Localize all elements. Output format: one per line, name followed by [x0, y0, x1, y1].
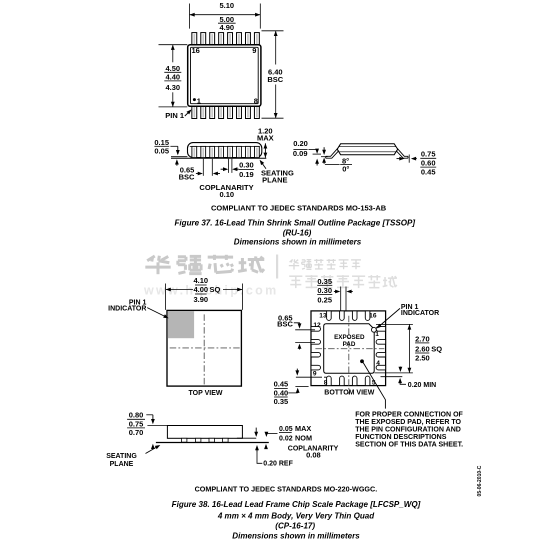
svg-text:SEATING: SEATING [106, 453, 137, 460]
svg-text:0.40: 0.40 [274, 388, 289, 397]
dimension 0.35/0.30/0.25 pad width [317, 277, 353, 311]
TSSOP top view - top leads (pins 16-9) [192, 33, 259, 45]
dimension 0.20 MIN [381, 367, 437, 390]
dimension 0.75/0.60/0.45 foot length [397, 150, 437, 177]
dimension 1.20 MAX package height [257, 126, 274, 158]
bottom view centerlines [315, 316, 384, 395]
svg-text:TOP VIEW: TOP VIEW [189, 390, 223, 397]
PIN 1 INDICATOR label with arrow (top view) [108, 300, 169, 319]
dimension 0.20/0.09 lead thickness [293, 139, 328, 165]
bottom view right pads (pins 1-4) [376, 327, 386, 370]
svg-text:COMPLIANT TO JEDEC STANDARDS M: COMPLIANT TO JEDEC STANDARDS MO-220-WGGC… [195, 484, 378, 493]
svg-text:FOR PROPER CONNECTION OF: FOR PROPER CONNECTION OF [355, 412, 463, 419]
TSSOP lead profile body (detail view) [337, 144, 398, 155]
dimension 0.65 BSC pad pitch (left) [277, 313, 315, 349]
SEATING PLANE label with arrow (fig37) [260, 160, 294, 185]
svg-text:2.60: 2.60 [415, 345, 430, 354]
svg-text:4.00: 4.00 [193, 285, 208, 294]
pin 1 label with index dot [193, 96, 201, 105]
svg-text:BSC: BSC [277, 319, 293, 328]
svg-text:4.30: 4.30 [165, 83, 180, 92]
svg-text:13: 13 [319, 313, 327, 320]
svg-text:3.90: 3.90 [193, 295, 208, 304]
svg-text:0.75: 0.75 [421, 150, 436, 159]
dimension 0.45/0.40/0.35 (left) [274, 369, 329, 406]
svg-text:0.30: 0.30 [239, 161, 254, 170]
lead foot line [171, 156, 187, 158]
TSSOP side view - body [188, 143, 262, 158]
svg-text:PIN 1: PIN 1 [165, 111, 184, 120]
pin 1 indicator area (gray square) [168, 311, 195, 338]
dimension 0.80/0.75/0.70 package height [127, 411, 167, 449]
exposed pad outline (chamfered pin-1 corner) [324, 324, 375, 374]
pin 1 indicator circle [372, 327, 377, 332]
PIN 1 INDICATOR label with arrow (bottom view) [377, 304, 440, 329]
svg-text:4.10: 4.10 [193, 276, 208, 285]
dimension 5.10/5.00/4.90 body width [190, 1, 261, 32]
svg-text:0.20 MIN: 0.20 MIN [408, 382, 436, 389]
svg-text:4: 4 [376, 360, 380, 367]
dimension 0.15/0.05 foot standoff [154, 138, 179, 166]
svg-text:PAD: PAD [343, 341, 356, 348]
svg-text:0.20 REF: 0.20 REF [263, 460, 293, 467]
svg-text:8: 8 [324, 380, 328, 387]
dimension 4.10/4.00 SQ/3.90 package size [166, 276, 243, 310]
svg-text:INDICATOR: INDICATOR [401, 310, 439, 317]
svg-text:9: 9 [252, 46, 256, 55]
watermark 元器件在线商城 [289, 275, 397, 288]
svg-text:2.70: 2.70 [415, 334, 430, 343]
COPLANARITY 0.10 note [199, 183, 253, 199]
svg-text:0.35: 0.35 [317, 277, 332, 286]
dimension 6.40 BSC overall width [262, 31, 284, 118]
svg-text:Figure 38. 16-Lead Lead Frame: Figure 38. 16-Lead Lead Frame Chip Scale… [172, 500, 421, 509]
dimension 0.05 MAX / 0.02 NOM standoff [237, 424, 312, 449]
svg-text:Dimensions shown in millimeter: Dimensions shown in millimeters [234, 237, 362, 246]
svg-text:5.10: 5.10 [219, 1, 234, 10]
dimension 0.20 REF [255, 445, 293, 467]
LFCSP bottom view - package outline [311, 311, 386, 386]
svg-text:8: 8 [254, 96, 258, 105]
svg-text:COMPLIANT TO JEDEC STANDARDS M: COMPLIANT TO JEDEC STANDARDS MO-153-AB [211, 204, 387, 213]
watermark 华强集团旗下 [289, 259, 361, 270]
svg-text:0.25: 0.25 [317, 295, 332, 304]
svg-text:0.05: 0.05 [154, 147, 169, 156]
svg-text:1: 1 [197, 96, 201, 105]
SEATING PLANE label with arrow (fig38) [106, 445, 160, 468]
svg-text:16: 16 [369, 313, 377, 320]
dimension 8deg/0deg lead angle [325, 156, 352, 173]
svg-text:0.35: 0.35 [274, 397, 289, 406]
svg-text:0°: 0° [342, 164, 349, 173]
svg-text:4.40: 4.40 [165, 72, 180, 81]
svg-text:MAX: MAX [257, 133, 274, 142]
svg-text:INDICATOR: INDICATOR [108, 306, 146, 313]
svg-text:9: 9 [313, 370, 317, 377]
bottom view pin labels [313, 313, 380, 387]
svg-text:0.05: 0.05 [279, 426, 293, 433]
svg-text:BSC: BSC [179, 172, 195, 181]
left gull-wing lead (detail view) [326, 148, 339, 158]
TSSOP side view - leads [192, 146, 259, 157]
dimension 0.30/0.19 lead width [221, 159, 254, 179]
svg-text:BSC: BSC [267, 75, 283, 84]
bottom view top pads (pins 13-16) [327, 311, 370, 321]
svg-text:0.70: 0.70 [129, 428, 144, 437]
svg-text:MAX: MAX [295, 424, 311, 433]
dimension 0.65 BSC lead pitch [179, 159, 220, 182]
svg-text:BOTTOM VIEW: BOTTOM VIEW [324, 390, 374, 397]
svg-text:0.19: 0.19 [239, 170, 254, 179]
dimension 2.70/2.60 SQ/2.50 exposed pad size [375, 324, 443, 373]
svg-text:(CP-16-17): (CP-16-17) [275, 521, 315, 530]
svg-text:THE EXPOSED PAD, REFER TO: THE EXPOSED PAD, REFER TO [355, 419, 461, 426]
svg-text:SQ: SQ [210, 285, 221, 294]
svg-text:SECTION OF THIS DATA SHEET.: SECTION OF THIS DATA SHEET. [355, 442, 463, 449]
svg-text:0.20: 0.20 [293, 139, 308, 148]
svg-text:0.15: 0.15 [154, 138, 169, 147]
svg-text:PLANE: PLANE [110, 461, 134, 468]
svg-text:0.10: 0.10 [219, 190, 234, 199]
svg-text:Figure 37. 16-Lead Thin Shrink: Figure 37. 16-Lead Thin Shrink Small Out… [175, 219, 416, 228]
svg-text:THE PIN CONFIGURATION AND: THE PIN CONFIGURATION AND [355, 427, 461, 434]
svg-text:4 mm × 4 mm Body, Very Very Th: 4 mm × 4 mm Body, Very Very Thin Quad [217, 512, 375, 521]
watermark 华强芯城 [145, 255, 264, 274]
LFCSP side view - lead tabs [181, 438, 228, 442]
svg-text:0.60: 0.60 [421, 158, 436, 167]
svg-text:Dimensions shown in millimeter: Dimensions shown in millimeters [232, 532, 360, 541]
svg-text:NOM: NOM [295, 433, 312, 442]
TSSOP top view - package body [188, 45, 261, 107]
svg-text:05-06-2010-C: 05-06-2010-C [477, 465, 483, 496]
TSSOP top view - bottom leads (pins 1-8) [192, 106, 259, 118]
svg-text:SQ: SQ [431, 345, 442, 354]
seating plane line [171, 157, 266, 159]
svg-text:0.45: 0.45 [421, 167, 436, 176]
svg-text:0.08: 0.08 [306, 451, 321, 460]
bottom view left pads (pins 12-9) [311, 327, 321, 370]
LFCSP side view - body [167, 426, 242, 439]
svg-text:2.50: 2.50 [415, 354, 430, 363]
COPLANARITY 0.08 note (fig38) [288, 445, 339, 459]
svg-text:PLANE: PLANE [262, 175, 287, 184]
svg-text:FUNCTION DESCRIPTIONS: FUNCTION DESCRIPTIONS [355, 434, 447, 441]
svg-text:1: 1 [375, 331, 379, 338]
watermark divider bar [276, 255, 278, 279]
right gull-wing lead (detail view) [396, 148, 408, 158]
seating plane line (fig38) [156, 442, 269, 444]
svg-text:4.90: 4.90 [219, 23, 234, 32]
bottom view bottom pads (pins 8-5) [327, 376, 370, 386]
LFCSP top view - package outline [167, 310, 241, 386]
svg-text:(RU-16): (RU-16) [283, 229, 312, 238]
exposed pad connection note [355, 412, 463, 449]
dimension 4.50/4.40/4.30 body height [159, 45, 188, 107]
svg-text:12: 12 [313, 322, 321, 329]
svg-text:0.09: 0.09 [293, 149, 308, 158]
leader dot and line to exposed-pad note [360, 359, 385, 408]
svg-text:EXPOSED: EXPOSED [334, 334, 365, 341]
svg-text:0.02: 0.02 [279, 435, 293, 442]
svg-text:16: 16 [192, 46, 200, 55]
PIN 1 label with arrow (top view) [165, 109, 191, 120]
top view centerlines [170, 314, 240, 384]
svg-text:0.30: 0.30 [317, 286, 332, 295]
EXPOSED PAD label [334, 334, 365, 348]
